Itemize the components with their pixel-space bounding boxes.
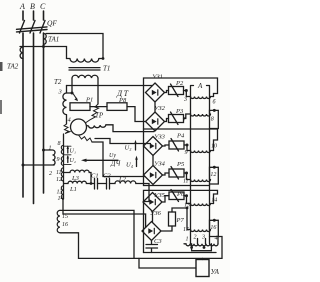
svg-text:Т1: Т1 xyxy=(103,65,110,73)
T1 core xyxy=(69,68,100,70)
control winding bus xyxy=(63,134,65,199)
node L3-L1 junction xyxy=(90,182,93,185)
transformer T1 secondary xyxy=(72,75,98,78)
wire R5 to winding row4 xyxy=(184,173,187,180)
unit box 2 xyxy=(143,129,145,186)
svg-text:U₃: U₃ xyxy=(125,145,132,152)
wire R4 to winding row3 xyxy=(184,145,187,151)
voltage arrow Uy xyxy=(84,159,118,161)
svg-text:Р4: Р4 xyxy=(176,133,185,140)
resistor R2 xyxy=(169,87,184,95)
control winding 9-10 xyxy=(61,157,63,166)
wire C1-C2 xyxy=(98,183,107,185)
primary winding 1-2-3-4 xyxy=(184,244,218,246)
wire coil2 to phase A xyxy=(23,164,54,166)
rectifier UZ4 xyxy=(144,166,163,185)
wire TR to UZ3 xyxy=(95,139,151,144)
output winding row4 xyxy=(187,180,211,182)
svg-text:УЗ6: УЗ6 xyxy=(150,210,162,217)
wire TR to UZ4 xyxy=(92,142,145,177)
output winding row6 xyxy=(187,230,211,232)
svg-text:А: А xyxy=(197,82,203,90)
voltage arrow U2 xyxy=(67,157,69,163)
wire UZ4 to R5 xyxy=(163,173,170,175)
wire R7 top to winding row6 xyxy=(172,208,187,230)
winding bus V2 xyxy=(207,86,210,244)
svg-text:15: 15 xyxy=(62,214,68,220)
rectifier UZ3 xyxy=(144,137,163,156)
voltage arrow U4 xyxy=(136,158,138,167)
svg-text:9: 9 xyxy=(57,157,60,163)
control winding 13-14 xyxy=(61,186,63,199)
wire terminal 4 xyxy=(218,237,222,259)
scan smudge left xyxy=(0,62,3,71)
potentiometer P1 wiper arrow xyxy=(72,92,77,100)
inductor L3 xyxy=(64,170,91,183)
output winding row5 xyxy=(187,204,214,206)
wire TA secondary bus xyxy=(20,47,67,59)
wire UZ1-UZ2 xyxy=(154,102,156,112)
svg-text:11: 11 xyxy=(56,170,62,176)
wire UZ3-UZ4 xyxy=(152,156,154,166)
svg-text:УЗ5: УЗ5 xyxy=(154,192,166,199)
svg-text:Р5: Р5 xyxy=(176,161,185,168)
terminal ticks xyxy=(64,146,72,164)
svg-text:16: 16 xyxy=(210,225,216,231)
output winding row3 xyxy=(187,151,214,153)
wire R3 to winding row2 xyxy=(184,114,186,119)
svg-text:L2: L2 xyxy=(118,176,127,183)
node TA1-C junction xyxy=(42,45,45,48)
wire T1 sec right down to TR xyxy=(97,78,99,104)
svg-text:ТР: ТР xyxy=(95,112,104,120)
wire phase B vertical xyxy=(33,33,35,204)
svg-text:8: 8 xyxy=(211,117,214,123)
terminal 8 tab xyxy=(210,110,219,128)
svg-text:4: 4 xyxy=(215,235,218,242)
svg-text:А: А xyxy=(19,2,25,11)
wire UZ6 to R7 xyxy=(161,226,172,231)
capacitor C1 xyxy=(95,179,98,190)
winding strap xyxy=(192,244,212,251)
terminal 2 tap xyxy=(197,239,199,244)
svg-text:Р8: Р8 xyxy=(118,97,127,104)
control winding 8-9 xyxy=(61,145,63,154)
svg-text:2: 2 xyxy=(49,171,52,177)
svg-text:С: С xyxy=(40,2,46,11)
svg-text:В: В xyxy=(30,2,35,11)
terminal 16 tab xyxy=(210,220,219,236)
svg-text:8: 8 xyxy=(58,141,61,147)
svg-text:3: 3 xyxy=(58,89,63,96)
current transformer TA2 xyxy=(20,47,23,59)
svg-text:10: 10 xyxy=(211,144,217,150)
resistor R3 xyxy=(169,115,184,123)
svg-text:14: 14 xyxy=(211,197,217,204)
wire UZ3 to R4 xyxy=(163,145,170,146)
coil 1-2 on phase C xyxy=(42,149,45,152)
svg-text:L1: L1 xyxy=(69,186,77,193)
svg-text:3: 3 xyxy=(183,97,187,103)
wire phase B stub xyxy=(33,11,35,20)
svg-text:12: 12 xyxy=(210,172,216,178)
svg-text:С2: С2 xyxy=(103,173,111,180)
wire T1 sec left down xyxy=(71,78,73,93)
wire R8 to UZ2 xyxy=(127,107,146,122)
wire R6 to winding row5 xyxy=(184,196,187,204)
capacitor C3 xyxy=(146,241,158,253)
svg-text:ТА1: ТА1 xyxy=(48,36,59,44)
svg-text:УЗ4: УЗ4 xyxy=(154,161,166,168)
svg-text:Uу: Uу xyxy=(109,153,116,159)
svg-text:QF: QF xyxy=(47,19,57,28)
resistor R6 xyxy=(169,192,184,200)
svg-text:УЗ2: УЗ2 xyxy=(154,105,166,112)
wire T2 to UZ1 xyxy=(67,85,153,87)
inductor L2 xyxy=(110,181,150,202)
svg-text:1: 1 xyxy=(186,237,189,243)
svg-text:б: б xyxy=(213,99,217,106)
svg-text:U₄: U₄ xyxy=(126,162,134,169)
resistor R7 xyxy=(169,212,176,226)
transformer T2 winding xyxy=(63,86,67,125)
svg-text:Т2: Т2 xyxy=(54,78,62,86)
wire phase A stub xyxy=(22,11,24,20)
rectifier UZ2 xyxy=(146,112,165,131)
control winding 11-12 xyxy=(61,168,63,181)
svg-text:Р3: Р3 xyxy=(175,108,184,115)
voltage arrow U3 xyxy=(135,142,137,150)
capacitor C2 xyxy=(107,179,110,190)
wire T2 top tie xyxy=(67,92,73,94)
svg-text:УА: УА xyxy=(211,268,220,276)
resistor R8 xyxy=(107,103,127,111)
rectifier UZ1 xyxy=(146,83,165,102)
svg-text:2: 2 xyxy=(194,235,197,241)
transformer T1 primary xyxy=(67,59,104,63)
svg-text:ТА2: ТА2 xyxy=(7,63,19,71)
wire 15 top xyxy=(60,210,134,258)
svg-text:4: 4 xyxy=(68,117,72,124)
wire phase A vertical xyxy=(22,33,24,197)
wire R2 to winding A xyxy=(184,91,187,97)
output winding row2 xyxy=(186,114,211,116)
wire UZ2 to R3 xyxy=(165,119,169,122)
wire 16 bottom xyxy=(60,233,79,259)
svg-text:3: 3 xyxy=(201,235,205,241)
wire to UZ6 xyxy=(63,199,146,228)
resistor R4 xyxy=(169,141,184,149)
output winding row1 xyxy=(186,97,213,99)
rectifier UZ5 xyxy=(143,193,162,212)
svg-text:Р7: Р7 xyxy=(176,217,185,224)
current transformer TA1 xyxy=(44,34,47,45)
circuit breaker QF xyxy=(17,21,48,34)
svg-text:С3: С3 xyxy=(154,238,162,245)
terminal 12 tab xyxy=(210,167,219,184)
potentiometer P1 xyxy=(70,103,90,111)
TR output coil to UZ2 xyxy=(87,125,155,132)
electromagnet YA xyxy=(196,260,209,277)
wire phase C stub xyxy=(43,11,45,20)
wire phase C vertical xyxy=(43,33,45,193)
voltage arrow U1 xyxy=(67,147,69,153)
svg-text:ДТ: ДТ xyxy=(116,89,130,98)
wire P1 to R8 xyxy=(90,106,107,108)
svg-text:Р2: Р2 xyxy=(175,80,184,87)
rectifier UZ6 xyxy=(142,222,161,241)
wire UZ5 to R6 xyxy=(162,196,169,202)
svg-text:U₂: U₂ xyxy=(70,158,76,164)
node T1sec-T2 junction xyxy=(71,92,74,95)
bottom bus xyxy=(79,257,223,259)
inductor L1 xyxy=(64,181,95,183)
resistor R5 xyxy=(169,169,184,177)
svg-text:УЗ3: УЗ3 xyxy=(154,134,166,141)
winding bus V1 xyxy=(191,86,194,244)
svg-text:С1: С1 xyxy=(91,173,99,180)
svg-text:ДЧ: ДЧ xyxy=(110,160,121,168)
unit box 1 xyxy=(144,78,218,129)
wire TA1 top to T1 xyxy=(46,34,103,59)
wire YA top xyxy=(202,258,204,259)
svg-text:16: 16 xyxy=(62,222,68,228)
induction regulator TR xyxy=(64,104,99,142)
svg-text:12: 12 xyxy=(56,177,62,183)
terminal 3b tap xyxy=(205,239,207,244)
unit box 3 xyxy=(144,190,218,252)
node T1 primary right xyxy=(102,57,105,60)
svg-text:Р6: Р6 xyxy=(176,191,185,198)
svg-text:УЗ1: УЗ1 xyxy=(152,74,163,81)
wire YA left xyxy=(139,258,196,268)
svg-text:Р1: Р1 xyxy=(85,97,93,104)
wire UZ5-UZ6 xyxy=(152,212,154,222)
wire UZ1 to R2 xyxy=(165,91,169,93)
svg-text:U₁: U₁ xyxy=(70,149,76,155)
